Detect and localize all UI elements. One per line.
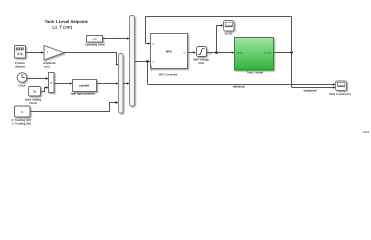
svg-text:reference: reference — [233, 84, 246, 88]
wire convert -> mux1 — [97, 82, 119, 84]
svg-text:Tank 1 Model: Tank 1 Model — [247, 71, 264, 74]
wire tank out -> junction — [274, 51, 293, 54]
caption Position Setpoint — [15, 62, 25, 69]
mux 1 — [119, 54, 124, 114]
svg-text:MPC: MPC — [166, 49, 172, 53]
wire relational -> convert — [54, 82, 73, 84]
svg-text:Initial Settling: Initial Settling — [25, 99, 42, 102]
constant 1 (tracking) — [15, 106, 31, 117]
svg-text:Amplitude: Amplitude — [43, 62, 56, 65]
svg-text:ref: ref — [152, 60, 155, 63]
wire measured -> scope — [292, 86, 336, 88]
svg-text:Tank 1 Level (cm): Tank 1 Level (cm) — [329, 93, 351, 96]
wire feedback vertical right — [291, 17, 293, 88]
svg-text:>: > — [50, 81, 52, 85]
svg-text:Position: Position — [15, 62, 25, 65]
svg-text:MPC Controller: MPC Controller — [159, 73, 178, 76]
Data Type Conversion block — [73, 80, 97, 92]
svg-text:Setpoint: Setpoint — [15, 65, 25, 68]
wire mux2 -> MPC ref (with junction) — [135, 60, 151, 63]
svg-text:ode3: ode3 — [363, 130, 370, 134]
gain Amplitude — [44, 46, 64, 61]
clock — [17, 73, 27, 83]
scope Tank 1 Level (cm) — [336, 81, 347, 91]
caption Amplitude (cm) — [43, 62, 56, 69]
constant Ts — [29, 87, 41, 97]
svg-text:convert: convert — [79, 84, 89, 88]
svg-text:(cm): (cm) — [44, 65, 50, 68]
caption Initial Settling Period — [25, 99, 42, 106]
svg-text:L1_T (cm): L1_T (cm) — [52, 25, 72, 30]
svg-text:Vp (V): Vp (V) — [224, 32, 232, 35]
svg-text:1: Tracking ON): 1: Tracking ON) — [12, 122, 31, 125]
svg-text:L10: L10 — [92, 38, 97, 41]
wire tracking -> mux1 — [30, 101, 119, 111]
source block Position Setpoint — [15, 46, 26, 59]
wire reference branch down — [147, 62, 149, 85]
svg-text:L1 (cm): L1 (cm) — [264, 52, 272, 55]
svg-text:measured: measured — [304, 89, 317, 93]
wire feedback left down to mo — [146, 17, 151, 45]
wire reference to scope — [148, 83, 336, 85]
wire L10 -> mux2 — [103, 37, 135, 39]
svg-text:Limit: Limit — [198, 62, 204, 65]
svg-text:Clock: Clock — [19, 84, 27, 87]
annotation: Tank 1 Level Setpoint — [45, 19, 89, 29]
wire Ts -> relational — [41, 86, 49, 91]
wire saturation -> tank model (junction to Vp scope) — [207, 51, 235, 54]
svg-text:Tank 1 Level Setpoint:: Tank 1 Level Setpoint: — [45, 19, 89, 24]
saturation AMP Voltage Limit — [197, 47, 207, 57]
wire feedback top — [146, 16, 292, 18]
MPC Controller block — [151, 34, 188, 69]
mux 2 — [130, 16, 135, 107]
caption AMP Voltage Limit — [193, 58, 209, 65]
svg-text:Vm: Vm — [209, 53, 212, 56]
wire mux1 -> mux2 — [123, 82, 130, 84]
svg-text:Vp (V): Vp (V) — [236, 52, 242, 55]
wire gain -> mux1 — [64, 53, 119, 66]
svg-text:Data Type Conversion: Data Type Conversion — [71, 92, 96, 95]
Tank 1 Model green block — [235, 38, 274, 71]
svg-text:Operating Level: Operating Level — [85, 43, 105, 46]
svg-text:Period: Period — [29, 102, 37, 105]
small gray down arrow glyph — [150, 66, 153, 72]
wire Position Setpoint -> gain — [26, 51, 45, 53]
wire branch -> Vp scope — [217, 24, 224, 52]
relational operator > — [49, 73, 55, 93]
svg-text:AMP Voltage: AMP Voltage — [193, 58, 209, 61]
constant L10 — [87, 36, 103, 43]
wire mpc mv -> saturation — [188, 51, 197, 53]
caption tracking — [12, 119, 32, 126]
scope Vp (V) — [224, 21, 235, 32]
wire clock -> relational — [27, 77, 49, 79]
